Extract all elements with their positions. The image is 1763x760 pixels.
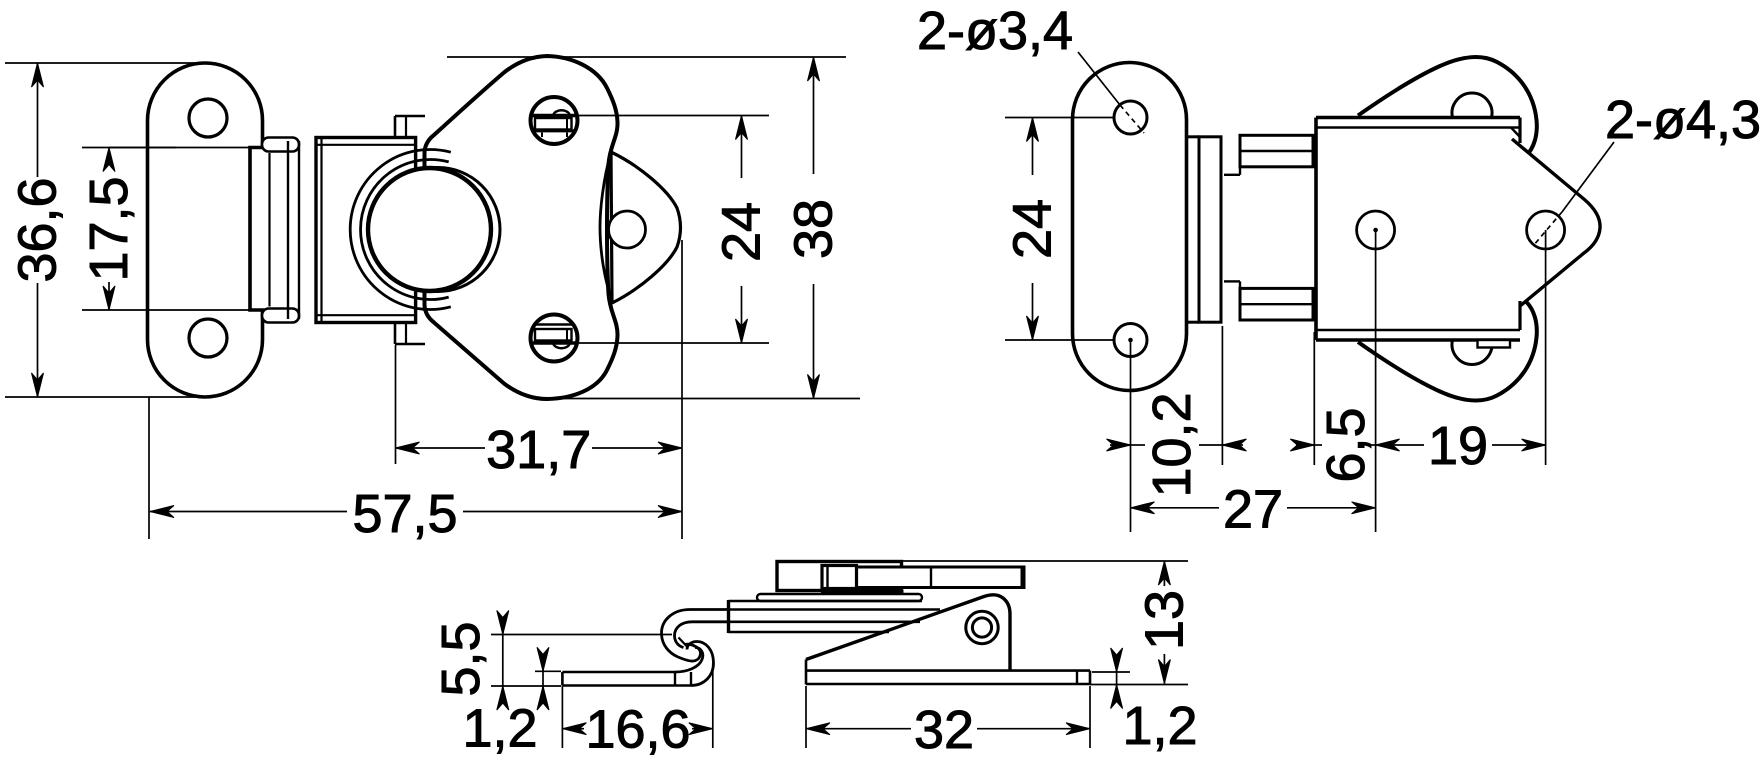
front view: screw hole top with slot (531, 97, 578, 144)
side view: handle wing bar (edge-on) (777, 562, 902, 591)
svg-text:5,5: 5,5 (431, 621, 491, 696)
front view: plate hole bottom (189, 319, 227, 357)
dimension 24 (front) (578, 116, 772, 344)
svg-text:24: 24 (712, 202, 772, 262)
dimension 57,5 (149, 397, 682, 544)
dimension 19 (1376, 230, 1546, 532)
svg-text:1,2: 1,2 (1122, 696, 1197, 756)
front view: bracket bottom tab (395, 322, 425, 344)
back view: body plate edges (1316, 118, 1520, 341)
svg-text:57,5: 57,5 (352, 484, 457, 544)
dimension 27 (1131, 479, 1376, 539)
back view: body plate fill (1316, 118, 1520, 341)
back view: body hole left (1357, 211, 1395, 249)
back view: lower connector tab (1224, 281, 1313, 320)
dimension 6,5 (1290, 332, 1376, 483)
front view: spring washer arcs (350, 149, 451, 309)
dimension 1,2 left (462, 647, 561, 758)
side view: handle flange (821, 590, 904, 593)
dimension 10,2 (1107, 326, 1247, 532)
back view: wing flap (1512, 139, 1600, 306)
back view: screw hole top (partial) (1452, 93, 1492, 117)
side view: spring strap to hook (662, 610, 729, 662)
back view: plate hole bottom (1114, 324, 1147, 357)
svg-text:17,5: 17,5 (79, 176, 139, 281)
label 2-diam4,3 with leader (1533, 90, 1761, 246)
side view: handle flat bar (824, 567, 1024, 588)
svg-text:19: 19 (1428, 416, 1488, 476)
back view: bottom tab (1478, 340, 1511, 348)
front view: hinge knuckles and pin (262, 138, 299, 323)
dimension 16,6 (562, 663, 712, 760)
back view: upper connector tab (1224, 135, 1313, 175)
side view: base top plate (757, 594, 922, 601)
front view: knob base circle (376, 168, 500, 292)
side view: mounting leaf with curl (562, 642, 713, 686)
dimension 36,6 (5, 63, 195, 397)
back view: screw hole bottom (partial) (1452, 340, 1492, 364)
svg-text:36,6: 36,6 (8, 177, 68, 282)
side view: latch hook knob (square) (822, 566, 857, 589)
front view: plate hole top (189, 99, 227, 137)
svg-text:6,5: 6,5 (1316, 407, 1376, 482)
back view: hinge leaf (1187, 137, 1222, 322)
front view: wing rivet hole (609, 211, 646, 248)
dimension 1,2 right (1090, 648, 1198, 756)
back view: trefoil bottom lobe behind body (1358, 302, 1537, 401)
dimension 13 (902, 561, 1195, 684)
dimension 24 (back) (1003, 118, 1115, 341)
side view: latch body slab (729, 600, 941, 633)
svg-text:24: 24 (1003, 199, 1063, 259)
label 2-diam3,4 with leader (917, 1, 1144, 133)
svg-text:38: 38 (784, 199, 844, 259)
front view: knob circle (368, 168, 491, 291)
dimension 5,5 (431, 611, 672, 711)
svg-text:27: 27 (1223, 479, 1283, 539)
front view: screw hole bottom with slot (531, 315, 578, 362)
back view: plate hole top (1114, 101, 1147, 134)
dimension 38 (447, 57, 860, 399)
back view: trefoil top lobe behind body (1358, 57, 1537, 156)
dimension 17,5 (79, 148, 252, 311)
svg-text:10,2: 10,2 (1142, 392, 1202, 497)
dimension 31,7 (396, 240, 683, 539)
svg-text:16,6: 16,6 (585, 700, 690, 760)
svg-text:2-ø3,4: 2-ø3,4 (917, 1, 1073, 61)
front view: bracket top tab (395, 116, 425, 138)
back view: body hole right (1527, 211, 1565, 249)
front view: butterfly trefoil body (425, 56, 618, 399)
side view: rivet eyelet (966, 611, 998, 643)
svg-text:13: 13 (1134, 590, 1194, 650)
side view: base plate (806, 671, 1090, 684)
svg-text:32: 32 (914, 700, 974, 760)
front view: spring bracket (center rectangle) (316, 138, 416, 323)
front view: wing fold crease (600, 152, 613, 303)
front view: mounting plate (stadium) (148, 63, 263, 397)
side view: catch bracket (triangle) (806, 595, 1010, 685)
svg-text:31,7: 31,7 (486, 420, 591, 480)
svg-text:1,2: 1,2 (462, 699, 537, 759)
dimension 32 (806, 686, 1090, 760)
front view: trefoil wing flap (right) (611, 152, 681, 303)
back view: mounting plate (stadium) (1073, 63, 1187, 391)
svg-text:2-ø4,3: 2-ø4,3 (1605, 90, 1761, 150)
